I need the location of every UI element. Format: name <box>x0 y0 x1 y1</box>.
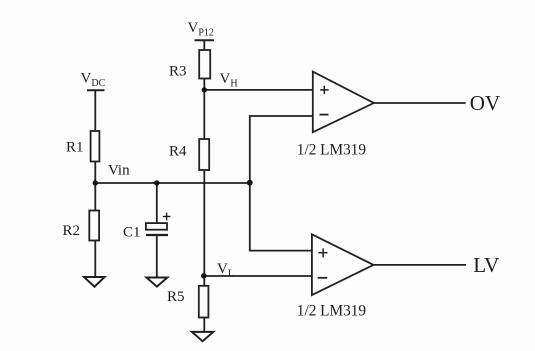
svg-text:R4: R4 <box>169 144 187 160</box>
svg-text:R1: R1 <box>66 140 84 156</box>
svg-text:C1: C1 <box>123 225 141 241</box>
svg-text:OV: OV <box>470 91 500 115</box>
svg-text:R3: R3 <box>169 64 187 80</box>
svg-text:1/2 LM319: 1/2 LM319 <box>297 303 367 320</box>
svg-text:Vin: Vin <box>108 163 130 179</box>
svg-text:LV: LV <box>473 253 499 277</box>
svg-text:R2: R2 <box>63 223 81 239</box>
svg-text:R5: R5 <box>167 289 185 305</box>
svg-text:1/2 LM319: 1/2 LM319 <box>297 141 367 158</box>
